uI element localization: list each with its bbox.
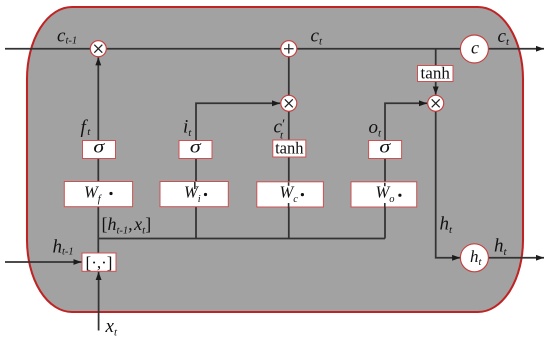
short wire over W_o box top: [384, 183, 386, 186]
wire: x_t input line: [98, 272, 100, 331]
wire: concat box to bottom bus: [97, 239, 99, 254]
node circle c: [460, 35, 488, 63]
short wire over W_o box bottom: [384, 203, 386, 208]
short wire over W_c box top: [288, 182, 290, 186]
node circle h_t: [460, 244, 488, 272]
multiply gate (output): [428, 95, 444, 111]
tanh box (candidate): [273, 139, 306, 158]
multiply gate (input): [281, 95, 297, 111]
wire: h_{t-1} input line: [5, 261, 82, 263]
wire: output multiply gate down then right to h circle: [436, 111, 461, 257]
cell body (rounded rectangle): [27, 7, 523, 312]
svg-text:xt: xt: [105, 316, 118, 339]
svg-text:σ: σ: [190, 137, 202, 157]
sigma box (output gate): [369, 137, 402, 158]
svg-text:tanh: tanh: [421, 64, 451, 83]
wire: tanh box to output multiply gate: [435, 82, 437, 95]
wire: h output line: [488, 257, 544, 259]
multiply gate (forget): [90, 41, 106, 57]
weight box W_c: [257, 182, 324, 207]
wire: candidate branch (up to plus gate): [288, 57, 290, 239]
svg-text:σ: σ: [379, 137, 391, 157]
svg-text:[·,·]: [·,·]: [86, 253, 113, 272]
wire: o branch (up then right into output multiply gate): [385, 103, 427, 238]
wire: bottom bus: [98, 238, 385, 240]
short wire over W_i box top: [194, 182, 196, 189]
sigma box (forget gate): [83, 137, 116, 158]
wire: c line down into tanh box: [435, 49, 437, 66]
weight box W_o: [351, 182, 417, 207]
weight box W_f: [64, 182, 132, 207]
weight box W_i: [160, 182, 228, 207]
short wire over W_c box bottom: [288, 203, 290, 208]
concat box [.,.]: [82, 253, 116, 272]
wire: i branch (up then right into multiply gate): [196, 103, 280, 238]
tanh box (cell output): [418, 64, 454, 83]
svg-text:σ: σ: [93, 137, 105, 157]
svg-text:c: c: [471, 38, 479, 58]
wire: cell-state line c (top horizontal): [5, 48, 544, 50]
wire: f branch (up to multiply gate): [97, 57, 99, 238]
sigma box (input gate): [179, 137, 212, 158]
plus gate: [281, 41, 297, 57]
